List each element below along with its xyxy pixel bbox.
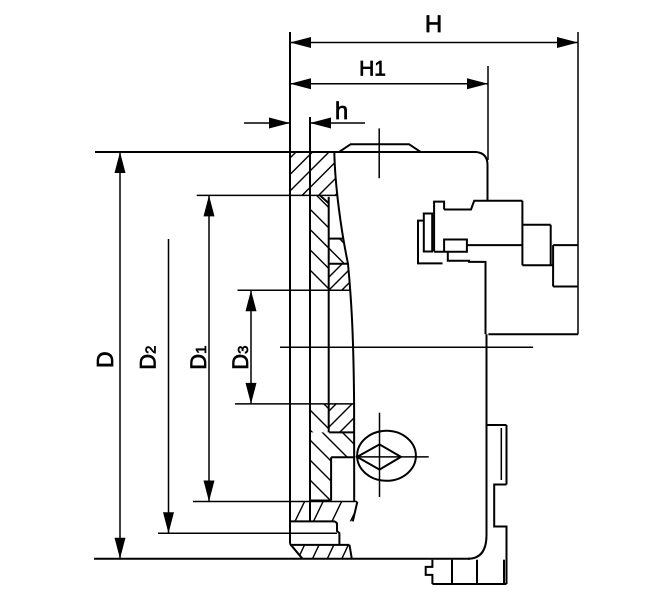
- wire: jaw slot bottom: [329, 238, 344, 240]
- dimension D1 top extension line: [197, 194, 337, 196]
- top jaw key trapezoid: [339, 144, 421, 152]
- svg-text:H: H: [425, 11, 442, 38]
- rear guide rail top: [488, 424, 507, 426]
- hatch: bottom chevron left (backslash): [277, 397, 359, 439]
- wire: spigot right edge: [350, 545, 352, 559]
- side jaw top face: [444, 201, 522, 210]
- rear guide rail right edge: [506, 425, 508, 485]
- dimension H right extension line: [577, 32, 579, 334]
- hatch: rear spigot band (steep): [298, 544, 349, 560]
- side jaw middle bracket rect: [424, 214, 432, 252]
- rear block 2 left edge: [552, 245, 554, 286]
- screw socket square (diamond): [357, 444, 401, 469]
- svg-text:h: h: [335, 98, 348, 125]
- dimension H1 line and arrows: [290, 83, 488, 85]
- wire: body front face (vertical, also H/H1/h extension): [289, 32, 291, 544]
- wire: jaw slot chamfer: [320, 195, 329, 203]
- bottom jaw inner vertical 1: [451, 560, 453, 584]
- rear step bottom edge: [488, 333, 578, 335]
- side jaw first step column: [434, 202, 444, 252]
- bottom jaw bottom edge: [432, 583, 506, 585]
- rear block 1 bottom edge: [522, 264, 553, 266]
- bottom jaw notched left edge: [426, 560, 433, 584]
- hatch: top jaw section (backslash): [228, 188, 416, 295]
- dimension D2 line and arrow: [168, 239, 170, 533]
- wire: rear flange bottom edge: [289, 520, 335, 522]
- dimension h lines and arrows (outside): [244, 122, 365, 124]
- svg-text:H1: H1: [359, 58, 386, 81]
- svg-text:D: D: [92, 351, 118, 368]
- wire: front plate inner face vertical: [309, 117, 311, 521]
- rear block 1 left edge: [521, 201, 523, 265]
- side jaw lower step: [448, 252, 486, 334]
- wire: bottom chevron band bottom edge: [329, 431, 354, 433]
- rear block 2 top edge: [553, 244, 578, 246]
- hatch: bottom jaw column (backslash): [236, 426, 417, 507]
- hatch: top jaw lower lobe: [272, 232, 391, 270]
- dimension H1 right extension line: [487, 66, 489, 160]
- bottom jaw inner vertical 2: [476, 560, 478, 584]
- hatch: body nose ring (slash): [311, 257, 375, 295]
- wire: body top edge: [95, 151, 476, 153]
- rear block 2 bottom edge: [553, 286, 578, 288]
- dimension D line and arrows: [119, 153, 121, 559]
- wire: rear flange top line (with D1 extension): [193, 501, 357, 503]
- dimension D3 bottom extension line: [235, 403, 354, 405]
- dimension D1 line and arrows: [208, 196, 210, 501]
- screw socket horizontal centerline: [356, 456, 429, 458]
- hatch: bottom chevron right (slash): [301, 397, 391, 439]
- rear block 1 top edge: [522, 224, 550, 226]
- wire: spigot top edge: [290, 544, 350, 546]
- hatch: rear flange band (steep): [295, 501, 361, 523]
- bottom jaw right inner vertical: [503, 560, 505, 584]
- side jaw mid horizontal line: [467, 244, 523, 246]
- wire: body bottom-right rounded corner: [468, 535, 487, 559]
- wire: register groove jog: [335, 521, 340, 545]
- hatch: body front flange (top band): [246, 145, 386, 202]
- wire: register floor (with D2 extension): [158, 532, 337, 534]
- wire: jaw / body nose boundary: [329, 263, 348, 265]
- side jaw tooth block: [434, 240, 467, 252]
- wire: body right face lower part: [486, 334, 488, 535]
- wire: bottom notch left edge: [330, 457, 332, 500]
- top jaw key centerline: [378, 128, 380, 178]
- rear guide rail inner line: [500, 428, 502, 480]
- dimension H line and arrows: [290, 42, 578, 44]
- wire: bottom notch top edge: [331, 456, 354, 458]
- wire: body right face: [487, 165, 489, 201]
- dimension D3 line and arrows: [250, 291, 252, 404]
- wire: body bottom edge: [94, 558, 470, 560]
- wire: rear flange right edge: [353, 502, 358, 522]
- rear block 1 right edge: [550, 225, 552, 265]
- side jaw outer bracket: [418, 221, 443, 264]
- wire: jaw/plug outer curved profile: [334, 152, 354, 502]
- chuck axis centerline: [280, 346, 533, 348]
- screw socket vertical centerline: [379, 413, 381, 497]
- wire: rear spigot chamfer: [290, 544, 303, 559]
- wire: body top-right rounded corner: [476, 152, 488, 165]
- wire: bottom jaw column bottom edge: [310, 500, 331, 502]
- dimension D3 top extension line: [238, 289, 351, 291]
- screw socket ellipse: [357, 431, 416, 481]
- wire: jaw guide inner vertical: [328, 197, 330, 433]
- rear guide rail step: [494, 485, 506, 585]
